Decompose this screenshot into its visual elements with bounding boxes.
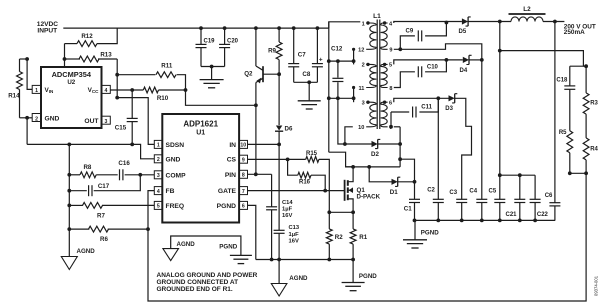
junction C5 bottom <box>498 219 502 223</box>
junction C21/C22 bar left <box>498 173 502 177</box>
wire divider top bar <box>570 65 586 67</box>
wire pin4 line to D5 <box>394 22 462 24</box>
junction R9 top <box>277 26 281 30</box>
svg-text:250mA: 250mA <box>564 29 585 36</box>
svg-text:8: 8 <box>242 173 245 179</box>
wire power ground rail <box>256 259 353 261</box>
svg-text:C11: C11 <box>421 105 432 111</box>
svg-text:1µF: 1µF <box>289 232 300 238</box>
junction C15 bottom <box>130 143 134 147</box>
wire VCC line of U1 <box>110 89 143 91</box>
junction R6 row <box>67 227 71 231</box>
junction divider bottom right <box>584 171 588 175</box>
junction C19 top <box>199 26 203 30</box>
svg-text:R1: R1 <box>359 234 367 241</box>
wire prefilter to divider <box>499 22 501 51</box>
junction C22 bottom <box>533 219 537 223</box>
capacitor C20 <box>219 28 239 66</box>
svg-text:PGND: PGND <box>217 203 236 210</box>
svg-text:GND: GND <box>166 156 181 163</box>
junction pin11 link <box>352 96 356 100</box>
svg-text:D2: D2 <box>371 151 379 158</box>
transistor Q1 D-PACK <box>345 167 381 212</box>
wire R13 to VCC/OUT column <box>116 59 118 98</box>
wire analog ground line <box>27 144 154 158</box>
resistor R4 <box>583 138 598 173</box>
svg-text:1: 1 <box>35 88 38 94</box>
svg-text:C20: C20 <box>227 39 239 45</box>
capacitor C21 <box>506 175 526 220</box>
svg-text:C16: C16 <box>118 160 130 167</box>
junction COMP node <box>138 173 142 177</box>
junction R11 branch <box>115 73 119 77</box>
pin 6 PGND of U1 <box>217 201 248 210</box>
junction VIN <box>25 57 29 61</box>
pin 3 OUT of U2 <box>84 116 110 125</box>
junction C21 bottom <box>518 219 522 223</box>
junction C19/C20 ground stem <box>210 65 214 69</box>
svg-text:R12: R12 <box>81 33 93 40</box>
svg-text:5: 5 <box>157 204 160 210</box>
capacitor C17 <box>69 175 140 196</box>
wire IN pin to D6 <box>248 143 280 145</box>
resistor R16 <box>288 159 326 190</box>
resistor R9 <box>268 28 282 74</box>
svg-text:C22: C22 <box>537 212 549 218</box>
wire R12 to R13 branch <box>64 44 66 67</box>
svg-text:PGND: PGND <box>359 273 377 280</box>
capacitor C13 <box>274 144 300 259</box>
junction R15/R2 node <box>327 210 331 214</box>
pin 5 FREQ of U1 <box>154 201 184 210</box>
pin 2 GND of U1 <box>154 155 180 164</box>
wire 12V input rail <box>63 27 329 29</box>
diode D1 <box>369 167 414 196</box>
svg-text:16V: 16V <box>289 238 299 244</box>
capacitor C15 <box>115 90 138 144</box>
junction C9 return <box>445 21 449 25</box>
wire source sense line <box>329 211 353 213</box>
resistor R10 <box>143 87 185 102</box>
svg-text:INPUT: INPUT <box>37 28 57 35</box>
resistor R15 <box>306 151 330 212</box>
capacitor C12 <box>331 46 343 99</box>
junction D4/C4 node <box>480 58 484 62</box>
junction pre-filter node <box>498 20 502 24</box>
svg-text:5: 5 <box>389 63 392 69</box>
diode D4 <box>460 55 472 74</box>
wire staircase to D1 node <box>400 159 414 182</box>
junction D1/D2 cathode node <box>413 180 417 184</box>
svg-text:R13: R13 <box>100 51 112 58</box>
resistor R13 <box>65 51 118 62</box>
wire R10 node to Q2 emitter <box>186 90 256 105</box>
junction divider top <box>584 64 588 68</box>
pin 8 PIN of U1 <box>225 170 248 179</box>
svg-text:R5: R5 <box>559 130 567 136</box>
svg-text:C12: C12 <box>331 46 343 53</box>
svg-text:C4: C4 <box>469 188 477 194</box>
junction prefilter tap <box>498 49 502 53</box>
junction pin12 link <box>352 59 356 63</box>
junction staircase branch <box>398 157 402 161</box>
wire C21/C22 top bar <box>500 174 535 176</box>
junction C17 row <box>67 189 71 193</box>
wire pin7 column down to SW <box>399 127 401 167</box>
junction R16/GATE <box>323 189 327 193</box>
junction C20 top <box>223 26 227 30</box>
junction C13 bottom / AGND stem <box>277 258 281 262</box>
svg-text:U1: U1 <box>196 130 205 137</box>
junction CS branch <box>286 158 290 162</box>
junction C12 bottom <box>336 96 340 100</box>
wire D4 node to C4 <box>481 60 483 199</box>
capacitor C14 <box>266 174 293 259</box>
svg-text:C8: C8 <box>302 71 310 78</box>
junction C11 left branch <box>389 125 393 129</box>
ground symbol PGND output <box>403 229 439 248</box>
svg-text:FREQ: FREQ <box>166 203 185 210</box>
wire pin10 to SW <box>345 127 353 144</box>
resistor R5 <box>559 130 573 173</box>
transistor Q2 <box>244 28 279 83</box>
wire C7 C8 join <box>294 81 318 83</box>
junction C8 top <box>316 26 320 30</box>
capacitor C11 <box>391 98 438 117</box>
junction C15 top <box>130 88 134 92</box>
pin 1 SDSN of U1 <box>154 140 184 149</box>
wire PIN pin to C14 <box>248 173 272 175</box>
junction PIN/Q2 column <box>254 172 258 176</box>
junction R14 bottom <box>25 116 29 120</box>
capacitor C22 <box>530 175 549 220</box>
svg-text:C19: C19 <box>204 39 216 45</box>
wire C12 to D2 anode <box>338 98 372 144</box>
svg-text:C17: C17 <box>98 183 110 190</box>
net label 200V OUT <box>564 24 596 37</box>
winding secondary 5-8 of L1 <box>381 63 393 92</box>
svg-text:PGND: PGND <box>421 229 439 236</box>
ground symbol earth C19/C20 <box>200 67 224 88</box>
junction AGND line left <box>67 143 71 147</box>
resistor R7 <box>69 203 154 220</box>
svg-text:R8: R8 <box>83 164 91 171</box>
capacitor C8 electrolytic <box>302 28 323 82</box>
ground symbol earth C7/C8 <box>298 82 321 109</box>
capacitor C3 <box>449 190 467 221</box>
svg-text:C21: C21 <box>506 212 518 218</box>
junction C7/C8 ground stem <box>307 80 311 84</box>
svg-text:R2: R2 <box>335 234 343 241</box>
junction pin10/D2 line <box>343 142 347 146</box>
svg-text:GROUND CONNECTED AT: GROUND CONNECTED AT <box>157 279 239 286</box>
wire FB to divider <box>148 191 154 230</box>
controller U1 ADP1621 body <box>162 114 239 223</box>
svg-text:C1: C1 <box>404 205 412 212</box>
svg-text:OUT: OUT <box>84 118 99 125</box>
op-amp U2 ADCMP354 body <box>41 67 102 128</box>
wire C11 left branch <box>390 112 392 127</box>
svg-text:D3: D3 <box>445 106 453 112</box>
diode D5 <box>459 17 471 35</box>
wire primary bus <box>328 22 330 152</box>
svg-text:L2: L2 <box>523 6 531 13</box>
svg-text:C7: C7 <box>298 52 306 59</box>
svg-text:D1: D1 <box>390 189 398 196</box>
capacitor C16 <box>118 160 154 180</box>
wire CS line <box>248 158 306 160</box>
svg-text:R6: R6 <box>100 236 108 243</box>
capacitor C7 <box>288 28 306 82</box>
svg-text:+: + <box>319 56 323 63</box>
svg-text:8: 8 <box>389 86 392 92</box>
junction R8 row <box>67 173 71 177</box>
wire output to C6 <box>554 22 556 203</box>
net label 12VDC INPUT <box>37 21 58 34</box>
wire pin2 line <box>329 60 354 62</box>
svg-text:R3: R3 <box>590 101 598 107</box>
winding primary 1-12 of L1 <box>358 21 376 53</box>
svg-text:L1: L1 <box>373 13 381 20</box>
junction C14 bottom <box>270 258 274 262</box>
svg-text:AGND: AGND <box>289 275 308 282</box>
wire pin9 to D4 output <box>400 44 482 60</box>
wire pin5 line to D4 <box>394 60 463 65</box>
wire bus staircase to Q1 drain <box>329 152 353 167</box>
svg-text:4: 4 <box>157 189 160 195</box>
diode D2 <box>371 139 380 158</box>
junction pin9 stub <box>398 47 402 51</box>
junction Q2 collector at rail <box>254 26 258 30</box>
svg-text:CS: CS <box>227 157 237 164</box>
capacitor C19 <box>196 28 216 66</box>
wire FB sense bottom run <box>148 173 586 301</box>
wire 12V to transformer pin 1 <box>329 22 361 28</box>
svg-text:PGND: PGND <box>219 243 237 250</box>
junction C12 top <box>336 59 340 63</box>
ground symbol PGND under R1 <box>342 260 378 291</box>
junction FB node <box>146 227 150 231</box>
pin 4 VCC of U2 <box>88 85 111 94</box>
svg-text:6: 6 <box>242 204 245 210</box>
svg-text:3: 3 <box>362 101 365 107</box>
svg-text:10: 10 <box>358 125 364 131</box>
resistor R12 <box>65 28 118 46</box>
junction R1 bottom <box>351 258 355 262</box>
capacitor C5 <box>489 188 506 220</box>
svg-text:AGND: AGND <box>77 248 96 255</box>
svg-text:FB: FB <box>166 188 175 195</box>
diode D6 <box>275 74 293 144</box>
wire D3 output to C3 <box>455 98 472 199</box>
capacitor C1 <box>404 182 420 221</box>
svg-text:D-PACK: D-PACK <box>357 194 381 201</box>
wire SW node line <box>346 166 401 168</box>
wire divider bottom bar <box>570 172 586 174</box>
junction R9/Q2 base <box>277 72 281 76</box>
capacitor C18 <box>556 66 575 131</box>
svg-text:C2: C2 <box>427 188 435 194</box>
pin 2 GND of U2 <box>32 114 59 123</box>
wire divider feed <box>500 51 584 67</box>
svg-text:GROUNDED END OF R1.: GROUNDED END OF R1. <box>157 286 233 293</box>
svg-text:D4: D4 <box>460 68 468 74</box>
junction C21 top <box>518 173 522 177</box>
junction R10/R11 node <box>184 88 188 92</box>
wire pin7 lead <box>394 126 400 128</box>
svg-text:U2: U2 <box>67 79 75 86</box>
svg-text:2: 2 <box>362 63 365 69</box>
svg-text:C15: C15 <box>115 125 127 132</box>
svg-text:AGND: AGND <box>177 241 196 248</box>
winding secondary 4-9 of L1 <box>381 21 393 53</box>
resistor R11 <box>117 63 185 90</box>
wire output ground rail <box>415 219 555 221</box>
svg-text:C3: C3 <box>449 190 457 196</box>
wire output rail to PGND <box>414 220 416 239</box>
wire pin3 line <box>329 97 354 99</box>
svg-text:4: 4 <box>104 88 107 94</box>
svg-text:9: 9 <box>242 158 245 164</box>
junction Q1 drain <box>351 165 355 169</box>
junction pin3 feed <box>327 96 331 100</box>
svg-text:ADCMP354: ADCMP354 <box>52 70 92 79</box>
ground symbol AGND left <box>61 248 95 270</box>
svg-text:C9: C9 <box>406 29 414 35</box>
svg-text:R4: R4 <box>590 147 598 153</box>
ground symbol AGND legend <box>163 236 241 261</box>
svg-text:ADP1621: ADP1621 <box>183 120 218 129</box>
junction C3 bottom <box>460 219 464 223</box>
junction pin11 link corner <box>352 86 355 89</box>
junction pin12 link corner <box>352 48 355 51</box>
wire PGND pin to ground rail <box>248 205 256 259</box>
resistor R3 <box>583 66 598 138</box>
junction C1 bottom <box>413 219 417 223</box>
svg-text:C6: C6 <box>545 193 553 199</box>
svg-text:3: 3 <box>157 173 160 179</box>
transformer L1 core <box>373 13 381 129</box>
wire GND pin2 of U2 <box>20 118 33 145</box>
wire D5 to L2 <box>468 21 511 23</box>
wire VIN node <box>20 59 33 89</box>
svg-text:GND: GND <box>45 115 60 122</box>
svg-text:Q2: Q2 <box>244 71 253 78</box>
svg-text:1: 1 <box>362 21 365 27</box>
junction pin2 feed <box>327 59 331 63</box>
resistor R2 <box>326 212 343 259</box>
svg-text:COMP: COMP <box>166 172 187 179</box>
pin 7 GATE of U1 <box>218 187 248 196</box>
junction R2 bottom <box>327 258 331 262</box>
svg-text:C5: C5 <box>489 188 497 194</box>
svg-text:9: 9 <box>389 48 392 54</box>
wire GATE line <box>248 190 345 192</box>
junction divider bottom left <box>568 171 572 175</box>
junction D2 cathode <box>398 142 402 146</box>
junction R12/R13 node <box>63 57 67 61</box>
svg-text:GATE: GATE <box>218 188 237 195</box>
svg-text:1: 1 <box>157 143 160 149</box>
capacitor C2 <box>427 98 444 220</box>
svg-text:3: 3 <box>104 119 107 125</box>
wire Q2 emitter down <box>255 83 257 175</box>
svg-text:ANALOG GROUND AND POWER: ANALOG GROUND AND POWER <box>157 272 258 279</box>
ground symbol PGND legend <box>219 243 252 263</box>
wire pin6 line to D3 <box>394 98 449 102</box>
pin 9 CS of U1 <box>227 155 248 164</box>
winding primary 2-11 of L1 <box>358 63 376 92</box>
svg-text:7: 7 <box>242 189 245 195</box>
svg-text:10: 10 <box>240 143 246 149</box>
pin 10 IN of U1 <box>229 140 247 149</box>
junction C10 return <box>445 58 449 62</box>
wire OUT to SDSN <box>117 98 154 145</box>
svg-text:R11: R11 <box>161 63 173 70</box>
junction C4 bottom <box>480 219 484 223</box>
winding primary 3-10 of L1 <box>358 101 376 132</box>
wire prefilter to C5 <box>499 51 501 200</box>
diode D3 <box>445 94 457 113</box>
svg-text:R15: R15 <box>306 151 318 157</box>
junction C7 top <box>292 26 296 30</box>
svg-text:IN: IN <box>229 142 236 149</box>
svg-text:C18: C18 <box>556 77 568 83</box>
svg-text:PIN: PIN <box>225 172 236 179</box>
resistor R1 <box>350 212 368 259</box>
pin 1 VIN of U2 <box>32 85 54 94</box>
pin 4 FB of U1 <box>154 187 174 196</box>
junction Q1 source node <box>351 210 355 214</box>
ground symbol AGND mid <box>271 260 308 297</box>
svg-text:D5: D5 <box>459 29 467 35</box>
svg-text:2: 2 <box>35 116 38 122</box>
svg-text:1µF: 1µF <box>282 207 293 213</box>
winding secondary 6-7 of L1 <box>381 101 393 132</box>
svg-text:16V: 16V <box>282 213 292 219</box>
resistor R6 <box>69 226 148 243</box>
svg-text:12: 12 <box>358 48 364 54</box>
wire pin12 to pin2 link <box>353 49 355 64</box>
wire AGND column <box>68 144 70 256</box>
svg-text:C13: C13 <box>289 225 300 231</box>
junction Q2/R10 node <box>254 103 258 107</box>
wire L2 to output <box>543 21 564 23</box>
capacitor C9 <box>394 23 447 50</box>
svg-text:R16: R16 <box>299 179 311 185</box>
resistor R14 <box>8 59 22 118</box>
junction C11 return <box>436 96 440 100</box>
junction output node <box>553 20 557 24</box>
junction IN/D6/C13 <box>277 143 281 147</box>
svg-text:11: 11 <box>358 86 364 92</box>
junction R7 row <box>67 204 71 208</box>
junction D1 anode branch <box>367 165 371 169</box>
svg-text:C10: C10 <box>427 64 439 70</box>
svg-text:R14: R14 <box>8 93 20 100</box>
svg-text:6: 6 <box>389 101 392 107</box>
capacitor C6 <box>545 193 561 220</box>
svg-text:R10: R10 <box>157 95 169 102</box>
svg-text:2: 2 <box>157 157 160 163</box>
inductor L2 <box>509 6 546 21</box>
svg-text:09374-001: 09374-001 <box>594 275 599 296</box>
capacitor C10 <box>394 60 447 88</box>
svg-text:R7: R7 <box>97 213 105 220</box>
pin 3 COMP of U1 <box>154 171 186 180</box>
capacitor C4 <box>469 188 487 220</box>
svg-text:D6: D6 <box>285 126 293 133</box>
